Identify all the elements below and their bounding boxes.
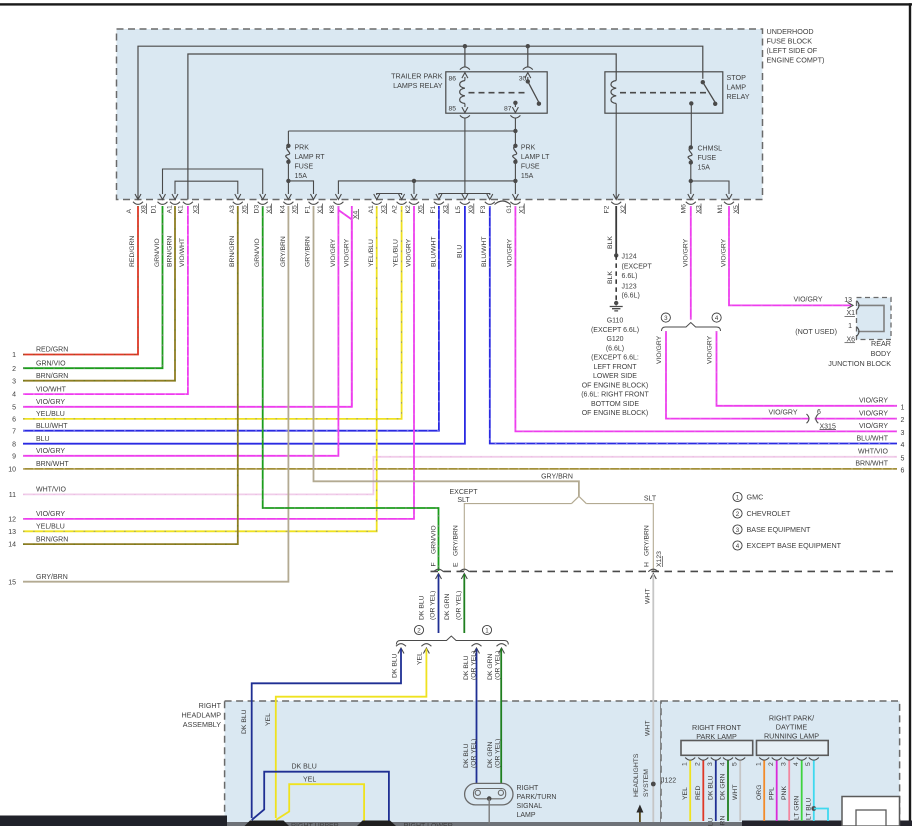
label DK BLU (OR YEL) option 1 upper <box>463 651 478 680</box>
svg-text:WHT: WHT <box>644 721 651 736</box>
junction bus B+ / trailer relay pin 86 <box>463 44 467 48</box>
svg-text:VIO/GRY: VIO/GRY <box>343 238 350 267</box>
fuse block connector cavity A/X8 <box>126 202 148 214</box>
running lamp pin 4 wire LT GRN <box>793 758 807 822</box>
svg-text:GRY/BRN: GRY/BRN <box>541 474 573 481</box>
svg-text:VIO/GRY: VIO/GRY <box>768 410 797 417</box>
svg-text:DK BLU: DK BLU <box>241 709 248 734</box>
wire CHMSL fuse output to pins M6/X3 and M1/X5 <box>688 163 732 200</box>
svg-text:K1: K1 <box>178 205 185 214</box>
svg-text:SYSTEM: SYSTEM <box>643 769 650 797</box>
svg-text:HEADLAMP: HEADLAMP <box>181 711 221 720</box>
svg-text:(OR YEL): (OR YEL) <box>471 651 478 680</box>
relay switch (stop) <box>701 80 718 106</box>
svg-text:1: 1 <box>901 404 905 411</box>
options split EXCEPT SLT / SLT <box>572 496 587 503</box>
label G110 ground location <box>581 318 649 418</box>
right circuit 3 label VIO/GRY <box>859 423 905 437</box>
fuse PRK LAMP LT 15A <box>513 131 550 180</box>
svg-text:X6: X6 <box>846 336 855 343</box>
relay pin 30 <box>519 67 533 83</box>
page border top <box>0 3 912 5</box>
svg-text:DK BLU: DK BLU <box>463 743 470 768</box>
svg-text:4: 4 <box>793 762 800 766</box>
svg-text:VIO/GRY: VIO/GRY <box>706 335 713 364</box>
relay switch (trailer) <box>526 79 542 106</box>
svg-text:LAMP LT: LAMP LT <box>521 154 550 161</box>
fuse block connector cavity X5 <box>409 202 425 214</box>
svg-text:DK BLU: DK BLU <box>392 653 399 678</box>
svg-text:F1: F1 <box>304 205 311 213</box>
park lamp pin 1 wire YEL <box>682 758 696 822</box>
jumper YEL/BLU pins A1/X3 to A2/K2 <box>374 194 405 200</box>
svg-text:BLU/WHT: BLU/WHT <box>36 423 68 430</box>
park lamp pin 5 wire WHT <box>732 758 746 822</box>
trailer relay pin 85 wire to pin L5/X9 <box>462 118 468 199</box>
svg-text:BASE EQUIPMENT: BASE EQUIPMENT <box>747 525 812 534</box>
svg-text:TRAILER PARK: TRAILER PARK <box>391 72 443 81</box>
right park/turn signal lamp <box>465 783 513 824</box>
svg-text:DK BLU: DK BLU <box>419 595 426 620</box>
fuse block connector cavity D1/A1 <box>151 202 174 214</box>
svg-text:6: 6 <box>12 417 16 424</box>
svg-text:3: 3 <box>12 378 16 385</box>
svg-text:GRY/BRN: GRY/BRN <box>644 525 651 556</box>
svg-text:J124: J124 <box>622 254 637 261</box>
junction 87-wire / fuse feed <box>513 129 517 133</box>
circuit 10 wire BRN/WHT (left) <box>8 461 897 473</box>
svg-text:F: F <box>431 562 438 566</box>
circuit 13 wire YEL/BLU (left) <box>8 206 376 536</box>
relay armature axis (stop, dashed) <box>620 92 706 94</box>
svg-text:DAYTIME: DAYTIME <box>776 722 808 731</box>
option marker 1 (GMC) <box>482 625 491 634</box>
svg-text:FUSE BLOCK: FUSE BLOCK <box>767 37 813 46</box>
svg-text:2: 2 <box>768 762 775 766</box>
svg-text:RIGHT: RIGHT <box>517 785 540 792</box>
svg-text:1: 1 <box>848 323 852 330</box>
svg-text:RIGHT PARK/: RIGHT PARK/ <box>769 713 814 722</box>
fuse CHMSL 15A <box>688 145 722 171</box>
option marker 2 (CHEVROLET) <box>414 625 423 634</box>
svg-text:F3: F3 <box>480 205 487 213</box>
circuit 15 wire GRY/BRN (left) <box>8 206 288 586</box>
wire PRK LAMP LT fuse output to pins K8/X4, K2/X5, G1/X1 <box>335 162 518 200</box>
svg-text:L5: L5 <box>455 206 462 214</box>
legend 2 CHEVROLET <box>733 509 791 518</box>
relay pin 87 <box>504 101 520 131</box>
option marker 4 (EXCEPT BASE EQUIPMENT) <box>712 313 721 322</box>
svg-text:DK GRN: DK GRN <box>444 593 451 620</box>
option marker 3 (BASE EQUIPMENT) <box>661 313 670 322</box>
svg-text:LAMPS RELAY: LAMPS RELAY <box>393 81 443 90</box>
svg-text:(OR YEL): (OR YEL) <box>495 739 502 768</box>
svg-text:YEL/BLU: YEL/BLU <box>393 239 400 267</box>
svg-text:D3: D3 <box>254 205 261 214</box>
svg-text:4: 4 <box>901 442 905 449</box>
circuit 7 wire BLU/WHT (left) <box>12 206 439 435</box>
circuit 11 wire WHT/VIO (left) <box>9 457 897 499</box>
wire GRY/BRN pin F1/X1 to SLT split <box>314 206 579 496</box>
svg-text:VIO/GRY: VIO/GRY <box>330 238 337 267</box>
ground symbol G110/G120 <box>610 301 623 311</box>
pin A/X8 arrow <box>135 194 141 200</box>
svg-text:X1: X1 <box>846 310 855 317</box>
jumper GRN/VIO pins A1 to D3/X1 <box>160 169 266 200</box>
fuse block connector cavity K4/X5 <box>279 202 298 214</box>
svg-text:12: 12 <box>8 517 16 524</box>
svg-text:13: 13 <box>844 297 852 304</box>
svg-text:5: 5 <box>901 455 905 462</box>
wire VIO/GRY pin K8/X4 branch to circuit 5 <box>338 206 351 407</box>
svg-text:VIO/GRY: VIO/GRY <box>656 335 663 364</box>
legend 3 BASE EQUIPMENT <box>733 525 811 534</box>
svg-text:BLU/WHT: BLU/WHT <box>431 236 438 267</box>
svg-text:PPL: PPL <box>768 787 775 800</box>
label DK BLU (OR YEL) upper <box>419 591 437 620</box>
label RIGHT PARK/TURN SIGNAL LAMP <box>517 785 557 819</box>
jumper BLU/WHT pins F1/X3 to F3 <box>436 194 493 200</box>
svg-text:M1: M1 <box>717 204 724 214</box>
splice J124 <box>614 253 637 260</box>
wire trailer relay pin 30 drop <box>527 46 529 66</box>
svg-text:DK GRN: DK GRN <box>720 773 727 800</box>
label (EXCEPT 6.6L) / J123 / (6.6L) <box>622 264 653 300</box>
svg-text:YEL/BLU: YEL/BLU <box>36 524 65 531</box>
circuit 1 wire RED/GRN (left) <box>12 206 138 359</box>
svg-text:EXCEPT BASE EQUIPMENT: EXCEPT BASE EQUIPMENT <box>747 541 842 550</box>
svg-text:6: 6 <box>901 468 905 475</box>
options brace for headlamp wiring 2/1 <box>396 636 508 645</box>
circuit 4 wire VIO/WHT (left) <box>12 206 188 399</box>
svg-text:J122: J122 <box>661 778 676 785</box>
svg-text:(NOT USED): (NOT USED) <box>795 327 837 336</box>
relay coil (stop) <box>611 81 616 104</box>
svg-text:BRN/GRN: BRN/GRN <box>229 236 236 267</box>
cut-off bottom elements bar (right, dark) <box>742 821 912 827</box>
svg-text:86: 86 <box>449 76 457 83</box>
svg-text:YEL/BLU: YEL/BLU <box>36 411 65 418</box>
label E GRY/BRN <box>453 525 460 567</box>
svg-text:5: 5 <box>805 762 812 766</box>
right headlamp assembly enclosure <box>225 701 661 826</box>
svg-text:UNDERHOOD: UNDERHOOD <box>767 27 814 36</box>
wire WHT from connector H to J122 and headlights system <box>650 574 656 823</box>
svg-text:GRN/VIO: GRN/VIO <box>431 525 438 554</box>
svg-text:(EXCEPT: (EXCEPT <box>622 264 653 271</box>
svg-text:(OR YEL): (OR YEL) <box>430 591 437 620</box>
svg-text:VIO/GRY: VIO/GRY <box>859 410 888 417</box>
svg-text:BRN/WHT: BRN/WHT <box>36 461 69 468</box>
svg-text:GRY/BRN: GRY/BRN <box>280 236 287 267</box>
svg-text:YEL: YEL <box>417 652 424 665</box>
wire DK BLU (OR YEL) from connector F <box>436 574 442 634</box>
svg-text:PRK: PRK <box>295 145 310 152</box>
svg-text:GRN/VIO: GRN/VIO <box>36 360 66 367</box>
wire DK BLU to right headlamp (option 2) <box>252 644 406 818</box>
svg-text:4: 4 <box>715 315 719 322</box>
svg-text:GMC: GMC <box>747 493 764 502</box>
label EXCEPT SLT <box>449 489 478 504</box>
svg-text:3: 3 <box>736 527 740 534</box>
svg-text:(EXCEPT 6.6L): (EXCEPT 6.6L) <box>591 327 639 334</box>
svg-text:H: H <box>644 562 651 567</box>
svg-text:DK BLU: DK BLU <box>708 817 715 826</box>
svg-text:3: 3 <box>781 762 788 766</box>
svg-text:WHT: WHT <box>732 785 739 800</box>
svg-text:2: 2 <box>417 627 421 634</box>
svg-text:4: 4 <box>736 543 740 550</box>
circuit 9 wire VIO/GRY (left) <box>12 206 338 460</box>
svg-text:PNK: PNK <box>781 786 788 800</box>
svg-text:FUSE: FUSE <box>295 164 314 171</box>
cut-off bottom elements bar (middle, grey) <box>227 822 742 826</box>
svg-text:(6.6L): (6.6L) <box>622 293 640 300</box>
park lamp pin 3 wire DK BLU <box>707 758 721 831</box>
splice on LT BLU wire <box>811 806 828 821</box>
wire trailer 87 feed to park lamp fuses <box>288 130 515 132</box>
svg-text:VIO/GRY: VIO/GRY <box>36 399 65 406</box>
svg-text:M6: M6 <box>680 204 687 214</box>
svg-text:1: 1 <box>736 494 740 501</box>
label RIGHT HEADLAMP ASSEMBLY <box>181 701 221 729</box>
fuse block connector cavity L5/X9 <box>455 202 475 214</box>
svg-text:BRN/GRN: BRN/GRN <box>167 236 174 267</box>
svg-text:3: 3 <box>901 430 905 437</box>
svg-text:BLU/WHT: BLU/WHT <box>481 236 488 267</box>
svg-text:SIGNAL: SIGNAL <box>517 803 543 810</box>
svg-text:YEL: YEL <box>303 777 316 784</box>
svg-text:1: 1 <box>485 627 489 634</box>
svg-text:6: 6 <box>817 409 821 416</box>
circuit 8 wire BLU (left) <box>12 206 465 448</box>
svg-text:LAMP RT: LAMP RT <box>295 154 326 161</box>
label H GRY/BRN <box>644 525 651 567</box>
cut-off component bottom right <box>842 797 900 827</box>
cut-off bottom elements bar (left section) <box>0 816 227 827</box>
svg-text:RED/GRN: RED/GRN <box>129 236 136 267</box>
svg-text:BODY: BODY <box>871 349 892 358</box>
relay contact to CHMSL fuse <box>689 101 693 147</box>
svg-text:GRY/BRN: GRY/BRN <box>305 236 312 267</box>
wire PRK LAMP RT fuse output to pins K4/X5 and F1/X1 <box>285 162 316 200</box>
svg-text:4: 4 <box>719 762 726 766</box>
right circuit 5 label WHT/VIO <box>858 449 904 463</box>
svg-text:D1: D1 <box>151 205 158 214</box>
svg-text:BRN/GRN: BRN/GRN <box>36 536 68 543</box>
svg-text:VIO/GRY: VIO/GRY <box>682 238 689 267</box>
fuse block connector cavity K8/X4 <box>329 202 360 220</box>
junction block pin 13/X1 <box>844 297 859 317</box>
svg-text:RELAY: RELAY <box>727 92 750 101</box>
inline connector line (dashed) <box>431 570 897 572</box>
svg-text:RED/GRN: RED/GRN <box>36 347 68 354</box>
running lamp pin 5 wire LT BLU <box>805 758 819 822</box>
svg-text:VIO/GRY: VIO/GRY <box>36 448 65 455</box>
svg-text:PARK/TURN: PARK/TURN <box>517 794 557 801</box>
wire trailer relay pin 86 drop <box>464 46 466 66</box>
svg-text:EXCEPT: EXCEPT <box>449 489 478 496</box>
svg-text:GRY/BRN: GRY/BRN <box>36 574 68 581</box>
svg-text:RED: RED <box>695 786 702 800</box>
svg-text:A3: A3 <box>229 205 236 214</box>
svg-text:(OR YEL): (OR YEL) <box>471 739 478 768</box>
wire DK GRN (OR YEL) from connector E <box>461 574 467 634</box>
wire DK BLU jumper upper to lower beam <box>252 772 389 821</box>
svg-text:BOTTOM SIDE: BOTTOM SIDE <box>591 401 639 408</box>
svg-text:LAMP: LAMP <box>727 83 747 92</box>
svg-text:E: E <box>453 562 460 567</box>
shared-cavity arc between F3 and G1/X1 <box>495 201 511 205</box>
fuse block connector cavity D3/X1 <box>254 202 273 214</box>
svg-text:2: 2 <box>736 511 740 518</box>
svg-text:A: A <box>126 209 133 214</box>
svg-text:G110: G110 <box>607 318 624 325</box>
svg-text:VIO/GRY: VIO/GRY <box>859 398 888 405</box>
svg-text:5: 5 <box>732 762 739 766</box>
svg-text:GRN/VIO: GRN/VIO <box>154 238 161 267</box>
svg-text:15A: 15A <box>521 173 534 180</box>
circuit 14 wire BRN/GRN (left) <box>8 206 238 549</box>
svg-text:(OR YEL): (OR YEL) <box>456 591 463 620</box>
svg-text:15A: 15A <box>295 173 308 180</box>
circuit 2 wire GRN/VIO (left) <box>12 206 162 373</box>
svg-text:15A: 15A <box>698 165 711 172</box>
wire VIO/GRY pin M1/X5 to rear body junction block <box>729 206 851 305</box>
relay pin 85 <box>449 104 470 119</box>
svg-text:BLU: BLU <box>36 436 50 443</box>
svg-text:(LEFT SIDE OF: (LEFT SIDE OF <box>767 46 818 55</box>
svg-text:WHT/VIO: WHT/VIO <box>36 487 66 494</box>
svg-text:DK BLU: DK BLU <box>292 764 317 771</box>
svg-text:DK GRN: DK GRN <box>487 741 494 768</box>
svg-text:VIO/GRY: VIO/GRY <box>793 297 822 304</box>
right circuit 6 label BRN/WHT <box>855 461 904 475</box>
svg-text:VIO/GRY: VIO/GRY <box>406 238 413 267</box>
svg-text:6.6L): 6.6L) <box>622 273 638 280</box>
svg-text:JUNCTION BLOCK: JUNCTION BLOCK <box>828 359 891 368</box>
label F GRN/VIO <box>431 525 438 566</box>
fuse block connector cavity F1/X1 <box>304 202 324 214</box>
relay pin 86 <box>449 67 470 83</box>
relay STOP LAMP RELAY <box>605 72 750 113</box>
svg-text:7: 7 <box>12 428 16 435</box>
svg-text:DK BLU: DK BLU <box>708 775 715 800</box>
legend 1 GMC <box>733 492 763 501</box>
right lamps enclosure <box>661 701 900 826</box>
svg-text:RIGHT FRONT: RIGHT FRONT <box>692 723 742 732</box>
svg-text:87: 87 <box>504 106 512 113</box>
wire VIO/GRY option 3 to X315 and right circuit 2 <box>666 331 809 419</box>
svg-text:YEL: YEL <box>682 787 689 800</box>
svg-text:85: 85 <box>449 106 457 113</box>
svg-text:RUNNING LAMP: RUNNING LAMP <box>764 731 819 740</box>
label X123 <box>656 551 663 567</box>
wire GRY/BRN SLT branch <box>586 504 653 571</box>
wire BLK J124 to ground (dashed) <box>615 255 617 303</box>
wire bus B+ from pin A/X8 to relays <box>138 46 703 199</box>
svg-text:13: 13 <box>8 529 16 536</box>
svg-text:9: 9 <box>12 453 16 460</box>
fuse block connector cavity F3 <box>480 202 495 214</box>
relay armature axis (trailer, dashed) <box>469 92 527 94</box>
svg-text:BLU: BLU <box>456 245 463 258</box>
svg-text:GRN/VIO: GRN/VIO <box>254 238 261 267</box>
svg-text:RIGHT: RIGHT <box>199 701 222 710</box>
svg-text:4: 4 <box>12 392 16 399</box>
svg-text:2: 2 <box>695 762 702 766</box>
right circuit 2 label VIO/GRY <box>859 410 905 424</box>
svg-text:(6.6L): (6.6L) <box>606 345 624 352</box>
svg-text:ASSEMBLY: ASSEMBLY <box>183 720 221 729</box>
inline connector X315 <box>807 409 837 430</box>
junction block internal link pin 13/X1 to pin 1/X6 <box>858 305 884 331</box>
svg-text:K8: K8 <box>329 205 336 214</box>
right circuit 1 label VIO/GRY <box>859 398 905 412</box>
fuse block connector cavity M6/X3 <box>680 202 702 214</box>
svg-text:LEFT FRONT: LEFT FRONT <box>593 364 637 371</box>
options brace for circuits 3/4 <box>662 323 721 332</box>
wire GRN/VIO pin D3/X1 to headlamp connector F <box>263 206 439 571</box>
svg-text:BLK: BLK <box>607 271 614 284</box>
svg-text:LOWER SIDE: LOWER SIDE <box>593 373 637 380</box>
svg-text:DK GRN: DK GRN <box>487 653 494 680</box>
svg-text:3: 3 <box>664 315 668 322</box>
bulb RIGHT LOWER beam <box>357 821 396 827</box>
svg-text:2: 2 <box>12 366 16 373</box>
svg-text:(OR YEL): (OR YEL) <box>495 651 502 680</box>
label DK GRN (OR YEL) option 1 lower <box>487 739 502 768</box>
svg-text:DK GRN: DK GRN <box>720 815 727 826</box>
svg-text:1: 1 <box>12 352 16 359</box>
label DK GRN (OR YEL) option 1 upper <box>487 651 502 680</box>
svg-text:ENGINE COMPT): ENGINE COMPT) <box>767 56 825 65</box>
svg-text:BRN/WHT: BRN/WHT <box>855 461 888 468</box>
svg-text:PRK: PRK <box>521 145 536 152</box>
svg-text:A2: A2 <box>391 205 398 214</box>
svg-text:F1: F1 <box>430 205 437 213</box>
junction block pin 1/X6 (NOT USED) <box>845 323 860 343</box>
svg-text:FUSE: FUSE <box>521 164 540 171</box>
fuse block connector cavity X3 <box>183 202 200 214</box>
running lamp pin 1 wire ORG <box>756 758 770 822</box>
svg-text:LT GRN: LT GRN <box>793 796 800 820</box>
rear body junction block enclosure <box>857 298 892 340</box>
running lamp pin 3 wire PNK <box>781 758 795 822</box>
svg-text:VIO/GRY: VIO/GRY <box>36 511 65 518</box>
fuse block connector cavity F1/X3 <box>430 202 450 214</box>
svg-text:VIO/WHT: VIO/WHT <box>36 386 67 393</box>
splice J122 <box>651 778 676 787</box>
svg-text:8: 8 <box>12 441 16 448</box>
svg-text:F2: F2 <box>604 205 611 213</box>
relay TRAILER PARK LAMPS RELAY <box>391 72 547 114</box>
svg-text:BLK: BLK <box>607 236 614 249</box>
connector RIGHT FRONT PARK LAMP <box>681 723 753 756</box>
legend 4 EXCEPT BASE EQUIPMENT <box>733 541 842 550</box>
wire YEL to right headlamp (option 2) <box>276 644 432 818</box>
circuit 6 wire YEL/BLU (left) <box>12 206 402 424</box>
junction bus B+ / trailer relay pin 30 <box>526 44 530 48</box>
fuse PRK LAMP RT 15A <box>286 131 326 180</box>
relay coil output to pin F2 (BLK inside block) <box>615 104 617 200</box>
label UNDERHOOD FUSE BLOCK (LEFT SIDE OF ENGINE COMPT) <box>767 27 825 65</box>
inline connector terminal at x=464.3 <box>459 569 469 572</box>
svg-text:ORG: ORG <box>756 785 763 800</box>
svg-text:K2: K2 <box>405 205 412 214</box>
svg-text:REAR: REAR <box>871 339 891 348</box>
svg-text:3: 3 <box>707 762 714 766</box>
